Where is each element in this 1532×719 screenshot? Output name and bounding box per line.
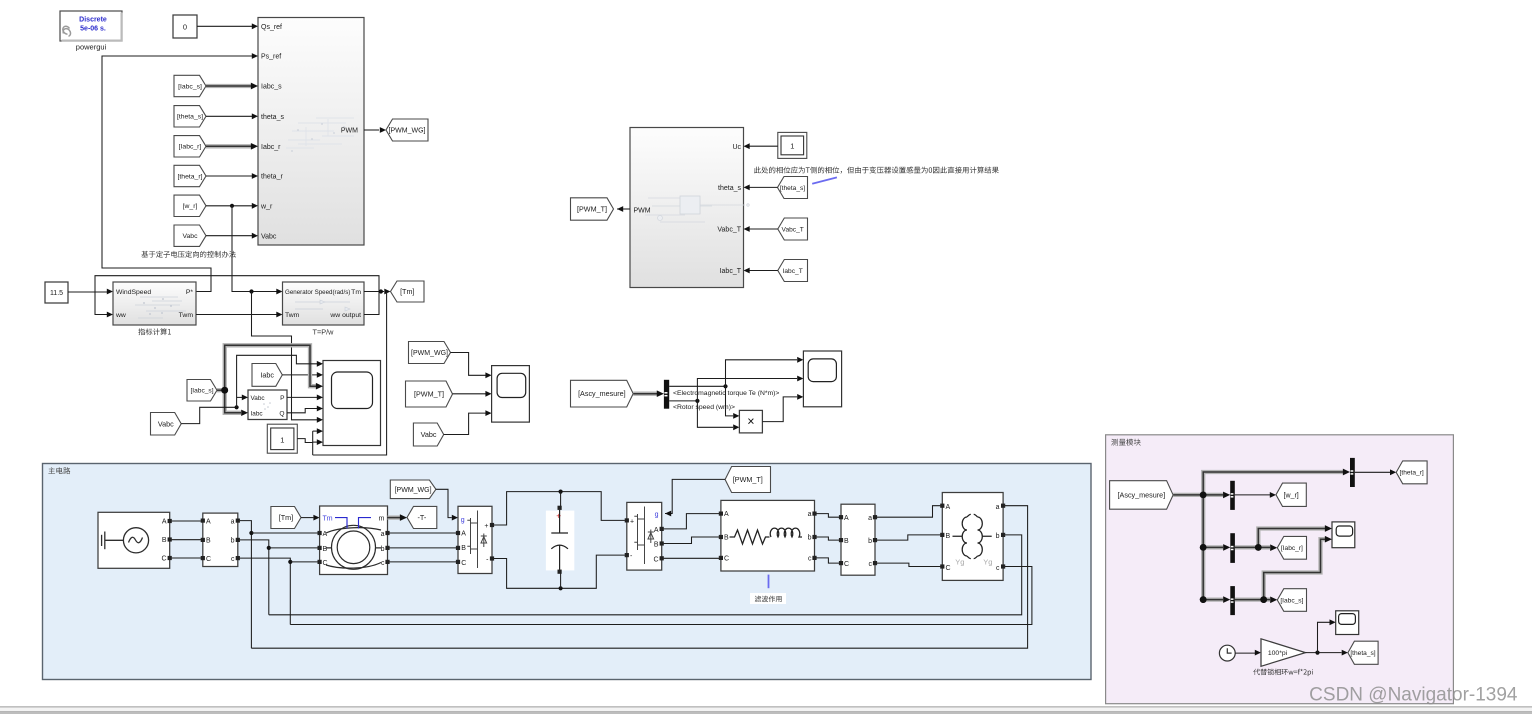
svg-text:C: C [206, 556, 211, 563]
three-phase transformer Yg-Yg [941, 493, 1005, 581]
filter callout 滤波作用 [750, 575, 786, 604]
transformer secondary feedback a [251, 506, 1027, 649]
goto tag [w_r] [1276, 483, 1306, 506]
asynchronous machine block [318, 506, 390, 575]
svg-text:P: P [280, 395, 285, 402]
svg-text:1: 1 [280, 436, 284, 445]
constant 1 (enabled style) [267, 424, 297, 453]
svg-text:CSDN @Navigator-1394: CSDN @Navigator-1394 [1309, 685, 1518, 706]
wire clock to gain [1235, 650, 1261, 656]
transformer secondary feedback b [269, 535, 1022, 615]
svg-text:[PWM_T]: [PWM_T] [733, 475, 763, 484]
svg-text:A: A [461, 531, 466, 538]
svg-text:[Tm]: [Tm] [400, 287, 414, 296]
bus Iabc_s down to power block [225, 390, 248, 416]
three-phase source block [98, 512, 172, 568]
junction dot Iabc_s (redraw) [221, 387, 228, 394]
from tag [PWM_T] (scope2) [406, 381, 492, 407]
wire PWM out to goto PWM_WG [364, 127, 386, 133]
wire product to scope3 [762, 394, 803, 422]
svg-text:c: c [231, 556, 235, 563]
svg-text:B: B [162, 537, 167, 544]
bus up to theta_r selector [1203, 469, 1350, 495]
stator phase a wire + feedback vertical [240, 521, 318, 649]
svg-text:[w_r]: [w_r] [183, 203, 198, 210]
wires meas2 to transformer [877, 506, 941, 567]
wire gain branch to scope p2 [1318, 619, 1336, 652]
stator phase c wire + feedback vertical [240, 558, 318, 624]
svg-text:Q: Q [279, 410, 284, 417]
bus Iabc_s out [1235, 596, 1277, 603]
svg-text:B: B [946, 533, 951, 540]
annotation text about T-side phase [754, 167, 999, 184]
svg-text:g: g [461, 517, 465, 524]
from tag [theta_s] (T side) [744, 177, 808, 199]
svg-text:A: A [654, 527, 659, 534]
from tag [Tm] (machine) [271, 507, 320, 529]
svg-text:[theta_r]: [theta_r] [178, 173, 203, 180]
svg-text:Vabc: Vabc [261, 233, 277, 240]
wire ww output feedback [95, 276, 379, 318]
svg-text:Generator Speed(rad/s): Generator Speed(rad/s) [285, 289, 350, 296]
wire torque out [669, 357, 803, 419]
bus Iabc_r to scope_p1 [1258, 525, 1332, 547]
label 代替锁相环 [1253, 669, 1313, 677]
from tag [PWM_T] (main circuit) [665, 467, 771, 517]
wire Twm to Twm [196, 312, 283, 318]
svg-text:[Iabc_s]: [Iabc_s] [1280, 597, 1303, 604]
bus selector Iabc_r [1230, 533, 1235, 563]
svg-text:B: B [206, 538, 211, 545]
svg-text:-T-: -T- [418, 513, 427, 522]
from tag [PWM_WG] (main circuit) [390, 480, 458, 521]
svg-text:[theta_s]: [theta_s] [177, 114, 203, 121]
svg-text:Iabc_s: Iabc_s [261, 84, 282, 91]
wires source to meas1 [172, 521, 201, 558]
goto tag [Tm] [391, 281, 425, 302]
svg-text:0: 0 [183, 23, 187, 32]
svg-text:B: B [844, 538, 849, 545]
svg-text:Iabc: Iabc [251, 410, 264, 417]
scrollbar strip [0, 707, 1532, 715]
wire to goto [w_r] [1235, 492, 1276, 498]
from tag [Iabc_r] [174, 136, 258, 157]
region: measurement module 测量模块 [1106, 435, 1454, 704]
wire 11.5 to WindSpeed [68, 289, 113, 295]
svg-text:Vabc_T: Vabc_T [717, 227, 741, 234]
svg-text:B: B [724, 535, 729, 542]
dc link bottom rail [494, 555, 625, 590]
wire const1 to scope inputs 7 8 [297, 428, 323, 455]
svg-text:theta_r: theta_r [261, 174, 283, 181]
svg-text:Vabc: Vabc [251, 395, 266, 402]
svg-text:A: A [162, 519, 167, 526]
transformer secondary feedback c [290, 567, 1032, 625]
converter 2 (grid side) [625, 502, 664, 570]
three-phase V-I measurement 2 [839, 504, 877, 575]
svg-text:B: B [461, 545, 466, 552]
bus machine m to goto -T- [388, 514, 408, 521]
junction w_r + wire down to Generator Speed [230, 204, 283, 295]
region: main circuit 主电路 [43, 464, 1092, 680]
dc capacitor block [546, 506, 574, 574]
svg-text:PWM: PWM [634, 207, 651, 214]
svg-text:A: A [206, 518, 211, 525]
scope p2 (theta) [1336, 611, 1359, 635]
svg-text:[theta_s]: [theta_s] [780, 185, 805, 192]
svg-text:a: a [231, 518, 235, 525]
svg-text:Ps_ref: Ps_ref [261, 54, 281, 61]
wires filter to meas2 [816, 514, 839, 564]
subsystem WindSpeed 指标计算1 [113, 282, 196, 335]
svg-text:Twm: Twm [285, 312, 300, 319]
svg-text:b: b [381, 546, 385, 553]
svg-text:+: + [484, 523, 488, 530]
constant 1 (T side) [778, 132, 807, 158]
svg-text:a: a [381, 531, 385, 538]
powergui block [60, 11, 123, 52]
goto tag -T- [407, 506, 437, 528]
svg-text:[Ascy_mesure]: [Ascy_mesure] [1118, 491, 1166, 500]
svg-text:C: C [946, 565, 951, 572]
svg-text:a: a [808, 511, 812, 518]
wire P* to Ps_ref [102, 53, 258, 291]
svg-text:[Iabc_s]: [Iabc_s] [190, 388, 213, 395]
bus down to Iabc_s selector [1200, 547, 1231, 603]
svg-text:C: C [461, 560, 466, 567]
svg-text:A: A [844, 515, 849, 522]
svg-text:ww: ww [115, 312, 126, 319]
product block [739, 410, 762, 433]
svg-text:[Ascy_mesure]: [Ascy_mesure] [578, 389, 626, 398]
svg-text:Twm: Twm [179, 312, 194, 319]
wire Tm loop to scope inputs [313, 292, 387, 456]
svg-text:g: g [655, 511, 659, 518]
svg-text:[theta_s]: [theta_s] [1350, 650, 1375, 657]
wire const0 to Qs_ref [197, 23, 258, 29]
svg-text:C: C [724, 556, 729, 563]
from tag [theta_r] [174, 165, 258, 186]
svg-text:Uc: Uc [732, 144, 741, 151]
from tag [PWM_WG] (scope2) [409, 342, 492, 379]
scope (8-input) [323, 361, 381, 446]
power measurement block P Q [248, 390, 287, 420]
svg-text:Yg: Yg [955, 558, 964, 567]
svg-text:powergui: powergui [76, 43, 107, 52]
wire to goto [theta_r] [1355, 469, 1396, 475]
svg-text:Vabc: Vabc [158, 419, 174, 428]
clock block [1219, 645, 1235, 661]
svg-text:w_r: w_r [260, 203, 273, 210]
svg-text:theta_s: theta_s [718, 185, 741, 192]
svg-text:b: b [231, 538, 235, 545]
from tag [Ascy_mesure] (torque area) [571, 380, 664, 407]
svg-text:C: C [844, 561, 849, 568]
svg-text:<Electromagnetic torque Te (N*: <Electromagnetic torque Te (N*m)> [673, 390, 779, 397]
svg-text:Iabc_T: Iabc_T [783, 268, 803, 275]
goto tag [Iabc_r] [1277, 536, 1306, 559]
from tag Vabc [174, 225, 258, 246]
from tag Vabc (scope area) [151, 405, 239, 435]
constant 0 [173, 15, 197, 38]
svg-text:A: A [724, 511, 729, 518]
svg-text:A: A [946, 504, 951, 511]
bus selector Iabc_s [1230, 586, 1235, 615]
svg-text:5e-06 s.: 5e-06 s. [80, 26, 106, 33]
svg-text:+: + [630, 518, 634, 525]
svg-text:[PWM_T]: [PWM_T] [577, 205, 607, 214]
svg-text:[PWM_WG]: [PWM_WG] [411, 350, 448, 357]
svg-text:theta_s: theta_s [261, 114, 284, 121]
goto tag [PWM_T] [571, 198, 631, 220]
from tag [Iabc_s] (scope area) [187, 380, 228, 402]
wire generator speed branch to scope [249, 289, 323, 422]
svg-text:Iabc_r: Iabc_r [261, 144, 281, 151]
svg-text:11.5: 11.5 [50, 290, 63, 297]
scope3 (torque) [803, 351, 841, 407]
goto tag [theta_s] (pink) [1348, 641, 1378, 664]
svg-text:[PWM_T]: [PWM_T] [414, 390, 444, 399]
svg-text:[Iabc_r]: [Iabc_r] [1281, 545, 1303, 552]
scope p1 (currents) [1332, 522, 1355, 548]
bus to w_r selector [1203, 492, 1230, 499]
from tag Iabc [252, 364, 323, 387]
svg-text:×: × [747, 415, 754, 429]
from tag [theta_s] [174, 106, 258, 127]
bus Iabc_s to scope_p1 input2 [1264, 536, 1332, 600]
from tag [Ascy_mesure] (measurement module) [1110, 481, 1207, 510]
svg-text:[PWM_WG]: [PWM_WG] [395, 487, 432, 494]
svg-text:c: c [996, 565, 1000, 572]
svg-text:b: b [808, 535, 812, 542]
svg-text:[Iabc_r]: [Iabc_r] [179, 144, 202, 151]
svg-text:Tm: Tm [351, 289, 361, 296]
svg-text:a: a [868, 515, 872, 522]
subsystem U_WG control (stator voltage oriented) [258, 18, 364, 246]
svg-text:c: c [869, 561, 873, 568]
svg-text:b: b [868, 538, 872, 545]
svg-text:P*: P* [186, 289, 194, 296]
svg-text:Vabc: Vabc [421, 430, 437, 439]
svg-text:[Tm]: [Tm] [279, 513, 293, 522]
svg-text:[Iabc_s]: [Iabc_s] [178, 83, 202, 90]
gain 100*pi [1261, 639, 1306, 667]
RLC filter block [719, 500, 816, 571]
svg-text:Qs_ref: Qs_ref [261, 24, 282, 31]
svg-text:C: C [161, 556, 166, 563]
from tag [w_r] [174, 195, 258, 216]
wire gain to theta_s goto [1306, 650, 1348, 656]
svg-text:Iabc_T: Iabc_T [720, 268, 742, 275]
wire Q to scope [287, 406, 323, 413]
bus Iabc_s up to scope input3 [225, 345, 323, 390]
dc link top rail [494, 490, 625, 526]
wire P to scope [287, 395, 323, 401]
subsystem U_T control (grid/T side) [630, 128, 749, 288]
stator phase b wire + feedback vertical [240, 540, 318, 615]
wires machine to converter1 [389, 533, 456, 562]
wire rotor speed out [669, 376, 803, 431]
goto tag [PWM_WG] [386, 119, 428, 141]
svg-text:b: b [996, 533, 1000, 540]
svg-text:[w_r]: [w_r] [1284, 492, 1299, 499]
bus down to Iabc_r selector [1200, 495, 1231, 551]
bus selector theta_r [1350, 458, 1355, 487]
svg-text:B: B [323, 546, 328, 553]
svg-text:C: C [653, 556, 658, 563]
svg-text:a: a [996, 504, 1000, 511]
svg-text:c: c [381, 560, 385, 567]
scope2 [492, 366, 530, 423]
from tag [Iabc_s] [174, 75, 258, 96]
svg-text:100*pi: 100*pi [1268, 650, 1288, 657]
svg-text:A: A [323, 531, 328, 538]
svg-text:B: B [654, 542, 659, 549]
svg-text:[PWM_WG]: [PWM_WG] [389, 128, 426, 135]
wire const1T to Uc [744, 143, 778, 149]
goto tag [Iabc_s] [1277, 589, 1306, 612]
svg-text:1: 1 [790, 142, 794, 151]
svg-text:PWM: PWM [341, 127, 358, 134]
svg-text:Discrete: Discrete [79, 17, 107, 24]
svg-text:Yg: Yg [983, 558, 992, 567]
svg-text:T=P/w: T=P/w [313, 328, 335, 337]
from tag Iabc_T [744, 260, 808, 282]
signal label electromagnetic torque [673, 390, 779, 397]
svg-text:ww output: ww output [329, 312, 361, 319]
goto tag [theta_r] [1396, 461, 1427, 484]
svg-text:Tm: Tm [323, 516, 333, 523]
bus selector (torque) [664, 380, 669, 409]
svg-text:Vabc: Vabc [183, 233, 199, 240]
svg-text:+: + [556, 511, 561, 521]
signal label rotor speed [673, 404, 735, 411]
label 基于定子电压定向的控制办法 [141, 251, 235, 258]
svg-text:m: m [379, 516, 385, 523]
svg-text:Iabc: Iabc [260, 370, 274, 379]
converter 1 (rotor side) [456, 506, 494, 573]
from tag Vabc (scope2) [413, 410, 491, 446]
svg-text:[theta_r]: [theta_r] [1400, 470, 1424, 477]
svg-text:c: c [808, 556, 812, 563]
from tag Vabc_T [744, 218, 808, 240]
subsystem T=P/w [283, 282, 365, 337]
wire Tm out to goto Tm [364, 289, 391, 295]
bus junction dots (redraw on top) [1200, 492, 1267, 603]
bus Iabc_r out [1235, 544, 1277, 551]
svg-text:C: C [323, 560, 328, 567]
svg-text:WindSpeed: WindSpeed [116, 289, 151, 296]
svg-text:Vabc_T: Vabc_T [782, 226, 804, 233]
wire Vabc vertical to power block and scope [237, 355, 323, 407]
three-phase V-I measurement 1 [201, 513, 240, 566]
constant 11.5 [45, 282, 68, 303]
bus selector w_r [1230, 481, 1235, 510]
wires converter2 to filter [664, 514, 719, 559]
